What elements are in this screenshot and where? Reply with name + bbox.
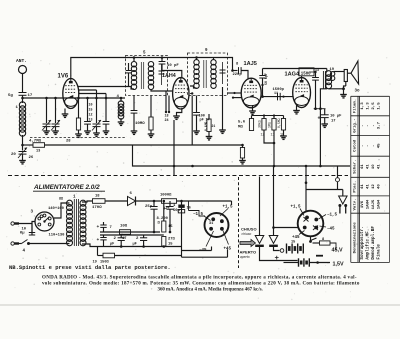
resistor R14 1000 ohm — [162, 199, 177, 204]
svg-text:1V6: 1V6 — [58, 74, 69, 80]
svg-text:41: 41 — [361, 164, 365, 169]
wire T9 return — [190, 92, 193, 145]
node 10 pF — [161, 56, 164, 59]
connector plug C — [339, 196, 348, 204]
svg-text:ANT.: ANT. — [16, 58, 27, 64]
svg-text:+45: +45 — [292, 236, 300, 240]
wire bottom bus 246 — [98, 246, 182, 248]
battery B2 1,5V — [299, 258, 310, 266]
wire 1V6 plate to HT bus — [71, 58, 233, 79]
node T5 feed — [133, 56, 136, 59]
capacitor C below T5 — [131, 111, 138, 114]
scan noise texture — [6, 46, 391, 301]
inductor T5 primary — [131, 61, 136, 89]
svg-text:-: - — [361, 145, 365, 147]
ground below R7 — [75, 134, 82, 137]
capacitor 10 pF — [159, 58, 182, 79]
connector pins C — [338, 204, 347, 214]
wire bypass tap — [310, 71, 316, 73]
resistor 0,1 Mohm — [203, 114, 215, 137]
resistor R7 oscillator grid — [76, 98, 80, 130]
wire coupling line — [261, 96, 293, 98]
node filter tap — [180, 200, 183, 203]
label CHIUSO — [241, 227, 257, 236]
svg-text:Schar.: Schar. — [353, 159, 358, 173]
tube V1 1V6 converter — [63, 79, 79, 109]
label +17 — [318, 115, 343, 124]
node bus x192 — [191, 165, 194, 168]
mains plug P — [11, 222, 19, 245]
wire C3 to ground — [55, 127, 57, 131]
wire plug stem A — [259, 177, 261, 236]
wire cathode network — [314, 107, 326, 110]
svg-text:15: 15 — [89, 108, 93, 112]
pin cross marks J2 — [304, 217, 319, 230]
svg-text:10 μF: 10 μF — [330, 115, 342, 119]
wire R12 R11 bottoms — [264, 130, 274, 166]
svg-text:15: 15 — [168, 225, 173, 229]
wire C6 to ground — [96, 127, 98, 133]
svg-text:41: 41 — [377, 164, 381, 169]
node bb3 — [163, 245, 166, 248]
svg-text:220p: 220p — [233, 73, 243, 77]
svg-text:1AH4: 1AH4 — [366, 199, 370, 209]
wire T9 primary feed — [196, 58, 198, 61]
svg-text:Amplific.MF.: Amplific.MF. — [365, 229, 370, 260]
wire T19 secondary ground — [344, 82, 346, 95]
wire mains top — [19, 224, 32, 233]
label +1 50u — [163, 204, 181, 213]
wire cap junction to selector — [32, 222, 35, 236]
svg-text:40: 40 — [377, 184, 381, 189]
capacitor C plate bypass — [312, 71, 319, 109]
output transformer T19 — [323, 71, 334, 89]
diode D6 — [128, 197, 136, 206]
wire HT line to output — [263, 69, 327, 72]
wire C8 to ground — [105, 124, 107, 131]
node R7 tap — [77, 97, 80, 100]
node filament bus — [173, 165, 176, 168]
resistor R8 — [313, 241, 337, 250]
wire T5 secondary to 1AH4 grid — [151, 89, 172, 91]
svg-text:Denominazione: Denominazione — [353, 222, 358, 254]
label 150 ohm — [93, 261, 110, 265]
ground below 10 Mohm — [148, 134, 155, 137]
svg-text:APERTO: APERTO — [240, 250, 257, 255]
svg-text:31: 31 — [209, 222, 213, 226]
svg-text:3o: 3o — [355, 90, 361, 94]
svg-text:ONDA RADIO - Mod. 43/3. Supere: ONDA RADIO - Mod. 43/3. Supereterodina t… — [42, 276, 357, 281]
wire tap to socket V — [274, 227, 298, 229]
resistor R18 170 ohm — [93, 199, 106, 204]
capacitor mains 10 kpF — [29, 233, 35, 236]
svg-text:+: + — [275, 255, 280, 263]
wire antenna lead — [22, 74, 24, 93]
ground below 1AJ5 cathode — [249, 105, 256, 114]
wire R14 to plug box — [177, 200, 232, 202]
table frame — [351, 96, 390, 262]
svg-text:8Ω: 8Ω — [59, 198, 63, 202]
ground below C5 — [84, 131, 91, 134]
wire HT secondary top — [82, 201, 93, 202]
ground below C8 — [103, 131, 110, 134]
power transformer T1 — [67, 199, 87, 246]
svg-text:Finale: Finale — [376, 244, 381, 260]
svg-text:5g: 5g — [8, 94, 13, 98]
ground below 0,1 Mohm — [206, 137, 213, 140]
wire plug stem B — [273, 166, 275, 236]
wire mid bus 2 — [100, 234, 164, 236]
ground below C2 — [43, 131, 50, 134]
capacitor below T9 — [193, 113, 200, 116]
svg-text:41: 41 — [361, 184, 365, 189]
wire AVC dashed line 28 — [30, 137, 125, 139]
wire L4 to ground — [120, 118, 122, 122]
label 8200 ohm — [157, 217, 174, 229]
svg-text:vole subminiatura. Onde medie:: vole subminiatura. Onde medie: 187÷570 m… — [42, 282, 360, 287]
svg-text:+: + — [318, 116, 321, 122]
resistor R15b 27 ohm — [162, 237, 176, 247]
node C2 tap — [45, 97, 48, 100]
svg-text:-: - — [366, 124, 370, 126]
wire T9 cap to ground — [222, 87, 224, 130]
connector plug A — [255, 236, 264, 244]
svg-text:11: 11 — [274, 92, 278, 96]
switch S below J2 — [309, 236, 316, 243]
node rectifier out — [153, 200, 156, 203]
socket J2 rear view — [298, 211, 324, 237]
switch S4 mains — [22, 240, 31, 246]
svg-text:Plac.: Plac. — [353, 181, 358, 193]
capacitor C8 220 pF — [233, 67, 249, 78]
wire J2 feed vertical — [305, 166, 307, 211]
svg-text:-: - — [372, 124, 376, 126]
wire socket A down — [260, 247, 298, 261]
svg-text:3,7: 3,7 — [377, 121, 381, 129]
wire below T9 — [196, 96, 198, 113]
connector socket A — [255, 245, 264, 247]
wire detector load bus — [252, 114, 284, 116]
variable capacitor C2 tuning — [42, 98, 51, 131]
wire to ground below T9 — [196, 115, 198, 131]
wire -1,5 vertical — [188, 201, 190, 211]
ground below T9 — [193, 131, 200, 134]
svg-text:+: + — [97, 225, 100, 230]
node bb1 — [120, 245, 123, 248]
inductor T5 secondary — [148, 61, 153, 89]
capacitor T9 tuning — [220, 62, 226, 84]
wire pin line +45 — [223, 230, 229, 245]
svg-text:+: + — [97, 238, 100, 243]
svg-text:24: 24 — [165, 119, 169, 123]
label 10 kpF — [20, 228, 27, 236]
svg-text:MΩ: MΩ — [238, 126, 243, 130]
svg-text:41: 41 — [366, 164, 370, 169]
ground 1AG4 filament — [293, 106, 300, 114]
resistor R19 150 ohm — [98, 253, 182, 258]
capacitor filter M4 — [178, 205, 191, 213]
wire antenna to grid bus — [22, 95, 24, 103]
resistor 5,6 Mohm — [249, 116, 253, 131]
IF transformer T9 dashed box — [188, 53, 228, 96]
wire C2 to ground — [46, 127, 48, 131]
tube V4 1AG4 output — [293, 78, 311, 108]
label 100 pF — [199, 115, 210, 123]
svg-text:0,1MΩ: 0,1MΩ — [203, 122, 207, 131]
inductor L1 antenna coil — [16, 102, 26, 136]
antenna ANT — [16, 58, 27, 74]
loudspeaker LS — [344, 61, 358, 84]
wire B2 right — [309, 262, 330, 264]
svg-text:140÷160: 140÷160 — [48, 207, 65, 211]
node bus x315 — [319, 165, 322, 168]
core T5 — [141, 62, 143, 89]
node bb2 — [142, 245, 145, 248]
svg-text:21: 21 — [212, 124, 216, 128]
wire link down — [342, 190, 344, 197]
svg-text:0,5MΩ: 0,5MΩ — [277, 118, 281, 128]
capacitor T5 primary tuning — [126, 63, 132, 87]
node bus x306 — [305, 165, 308, 168]
node C8 tap — [105, 97, 108, 100]
capacitor 10 uF electrolytic — [321, 109, 329, 124]
svg-text:25μ: 25μ — [145, 205, 153, 209]
svg-text:1,3: 1,3 — [366, 102, 370, 110]
svg-text:Demod.ampl.BF: Demod.ampl.BF — [371, 226, 376, 260]
svg-text:ALIMENTATORE 2.0/2: ALIMENTATORE 2.0/2 — [33, 184, 100, 191]
svg-text:28: 28 — [66, 140, 71, 144]
svg-text:1500: 1500 — [301, 72, 311, 76]
wire pin line +1,5 — [220, 209, 228, 217]
wire pin line -1,5 — [204, 216, 211, 221]
paragraph line 1 — [42, 276, 357, 281]
svg-text:4,7MΩ: 4,7MΩ — [29, 140, 42, 144]
svg-text:17: 17 — [28, 94, 33, 98]
dashed separator horizontal — [8, 175, 348, 177]
svg-text:5,6: 5,6 — [238, 121, 246, 125]
wire J1 bottom wiring — [182, 247, 228, 258]
node C5 tap — [86, 97, 89, 100]
wire T19 bottom to speaker — [329, 87, 345, 90]
node bus x274 — [273, 165, 276, 168]
wire main grid bus y=98 — [23, 97, 126, 99]
wire 1V6 grid3 line — [78, 89, 96, 91]
svg-text:13: 13 — [89, 118, 93, 122]
wire filament drop — [173, 120, 175, 175]
svg-text:Grig.-: Grig.- — [353, 118, 358, 132]
wire 1AJ5 left connections — [228, 92, 242, 99]
svg-text:CHIUSO: CHIUSO — [241, 227, 257, 232]
label minus — [316, 255, 323, 257]
arrow symbol plug — [240, 240, 256, 247]
svg-text:-: - — [361, 124, 365, 126]
ground below antenna trimmer — [19, 161, 26, 164]
node 8200 top — [163, 200, 166, 203]
node B2 right — [316, 261, 319, 264]
svg-text:12: 12 — [89, 113, 93, 117]
svg-text:1AJ5: 1AJ5 — [372, 199, 376, 209]
dashed separator vertical — [238, 177, 240, 268]
wire R11 bottom — [273, 130, 275, 143]
wire socket B down — [274, 247, 280, 251]
inductor L4 oscillator coil — [118, 98, 124, 119]
capacitor C5 padder — [84, 98, 91, 124]
svg-text:26: 26 — [29, 156, 34, 160]
resistor R11 1 Mohm — [268, 116, 277, 138]
wire to 150 ohm — [97, 247, 99, 256]
svg-text:Catod: Catod — [353, 139, 358, 152]
wire selector to primary — [54, 203, 70, 218]
wire pin line -45 — [206, 231, 214, 247]
svg-text:1,3: 1,3 — [361, 102, 365, 110]
svg-text:1AG4: 1AG4 — [285, 72, 301, 78]
node C6 tap — [95, 97, 98, 100]
wire 1AH4 plate to T9 — [190, 86, 197, 88]
svg-text:10: 10 — [89, 103, 93, 107]
wire J2 radial lines — [299, 209, 326, 235]
ground below T5 — [131, 131, 138, 134]
svg-text:1AH4: 1AH4 — [162, 73, 176, 79]
svg-text:170Ω: 170Ω — [92, 206, 102, 210]
plug J1 socket rear view — [205, 213, 229, 237]
capacitor T5 tuning — [159, 64, 165, 85]
wire R16 to ground — [283, 130, 285, 136]
node mid2 — [169, 231, 172, 234]
svg-text:15: 15 — [291, 241, 295, 245]
label APERTO — [240, 250, 257, 259]
svg-text:-: - — [372, 145, 376, 147]
svg-text:15: 15 — [168, 243, 173, 247]
resistor R13 4,7 Mohm AVC — [23, 143, 243, 148]
wire bus drop to terminal — [336, 166, 340, 190]
svg-text:Filam.: Filam. — [353, 99, 358, 113]
svg-text:10MΩ: 10MΩ — [135, 122, 145, 126]
svg-text:360 mA. Anodica 4 mA. Media fr: 360 mA. Anodica 4 mA. Media frequenza 46… — [158, 288, 263, 293]
wire B2 left — [284, 262, 299, 264]
variable capacitor C3 trimmer — [51, 98, 60, 131]
node mid — [153, 231, 156, 234]
wire T5 primary feed — [133, 58, 135, 63]
capacitor 2uF second — [133, 235, 148, 247]
svg-text:50 kpF: 50 kpF — [264, 73, 268, 85]
ground below C6 — [93, 133, 100, 136]
node junction main bus — [21, 97, 24, 100]
inductor T9 primary — [194, 60, 199, 89]
capacitor 2uF first — [110, 235, 125, 247]
svg-text:13: 13 — [36, 150, 40, 154]
svg-text:18: 18 — [95, 195, 100, 199]
wire switch to transformer — [29, 243, 70, 245]
wire C5 to ground — [87, 124, 89, 131]
svg-text:20: 20 — [11, 153, 16, 157]
ground below R16 — [280, 136, 287, 139]
svg-text:39kΩ: 39kΩ — [258, 120, 262, 128]
svg-text:NB.Spinotti e prese visti dall: NB.Spinotti e prese visti dalla parte po… — [9, 264, 171, 271]
wire HT return bus — [133, 145, 351, 166]
ground below 10 uF — [321, 124, 328, 127]
resistor R12 39 kohm — [258, 116, 267, 138]
wire R to ground — [150, 130, 152, 134]
boxed label 1500 — [299, 68, 319, 78]
node junction AVC line — [21, 144, 24, 147]
wire T19 primary bottom — [320, 89, 327, 166]
capacitor coupling 1500 pF — [278, 93, 281, 101]
svg-text:aperto: aperto — [240, 255, 250, 259]
pin labels 1AH4 — [165, 115, 169, 124]
capacitor C 25uF filter — [150, 201, 157, 232]
ground below C3 — [52, 131, 59, 134]
trimmer capacitor C26 — [18, 148, 27, 159]
tube V3 1AJ5 detector — [241, 78, 261, 108]
wire L1 to trimmer — [22, 135, 24, 151]
label 1500 pF — [273, 88, 285, 96]
node L4 tap — [120, 97, 123, 100]
wire -1,5 branch — [189, 211, 206, 217]
faint page edge — [0, 304, 400, 306]
wire diode to R14 — [136, 200, 162, 202]
resistor R15 8200 ohm — [162, 201, 166, 232]
node AVC end — [241, 144, 244, 147]
label 5,6 Mohm — [238, 121, 246, 130]
svg-text:10Ω: 10Ω — [120, 225, 128, 229]
svg-text:1MΩ: 1MΩ — [268, 122, 272, 128]
small caps left column — [97, 222, 113, 247]
voltage selector S3 — [35, 212, 54, 231]
svg-text:1,5: 1,5 — [377, 102, 381, 110]
svg-text:18: 18 — [165, 115, 169, 119]
wire T9 secondary out — [213, 58, 215, 61]
capacitor C 50uF filter — [166, 201, 173, 232]
battery B1 45V — [287, 244, 304, 254]
wire 1V6 screen to T5 — [78, 87, 134, 90]
svg-text:110÷130: 110÷130 — [49, 234, 66, 238]
terminal open circle — [280, 249, 284, 253]
wire B+ feed left — [181, 201, 183, 251]
resistor R 10 Mohm — [149, 96, 153, 131]
svg-text:1000Ω: 1000Ω — [160, 194, 172, 198]
svg-text:45: 45 — [377, 143, 381, 148]
svg-text:Valv.: Valv. — [353, 198, 358, 210]
connector socket B — [269, 245, 278, 247]
svg-text:8.200: 8.200 — [157, 217, 169, 221]
node R bottoms — [273, 142, 276, 145]
svg-text:−1,5: −1,5 — [327, 214, 338, 218]
svg-text:12: 12 — [372, 184, 376, 189]
wire terminal link — [306, 189, 343, 191]
label ALIMENTATORE 2.0/2 — [33, 184, 105, 191]
node C3 tap — [54, 97, 57, 100]
svg-text:10: 10 — [372, 164, 376, 169]
svg-text:-: - — [366, 145, 370, 147]
wire 1V6 cathode to ground — [64, 109, 66, 115]
svg-text:−45: −45 — [327, 228, 335, 232]
svg-text:41: 41 — [366, 184, 370, 189]
svg-text:μF: μF — [133, 243, 137, 247]
svg-text:Sovrappositr.: Sovrappositr. — [360, 226, 365, 260]
node J2 feed — [305, 181, 308, 184]
ground below 1V6 — [62, 114, 69, 117]
svg-text:10 pF: 10 pF — [167, 64, 179, 68]
svg-text:45,V: 45,V — [332, 248, 343, 254]
wire +1,5 lead — [231, 201, 233, 205]
ground below L4 — [118, 122, 125, 125]
wire R7 to ground — [78, 130, 80, 134]
ground below speaker — [340, 95, 347, 98]
capacitor C8 — [103, 94, 110, 125]
tube V2 1AH4 IF amplifier — [173, 78, 189, 109]
svg-text:chiuso: chiuso — [242, 232, 252, 236]
pin labels 1V6 — [89, 103, 93, 122]
